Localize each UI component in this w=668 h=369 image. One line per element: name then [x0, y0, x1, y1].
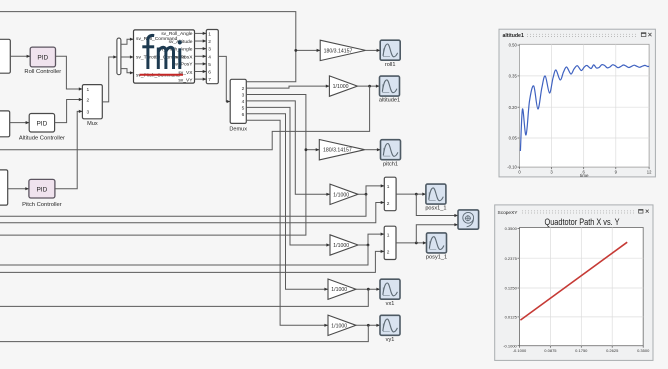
XY graph block — [458, 210, 479, 229]
svg-text:roll1: roll1 — [385, 62, 396, 68]
svg-text:altitude1: altitude1 — [379, 98, 400, 104]
svg-text:3: 3 — [242, 93, 245, 99]
wire: demux7 to vy gain — [246, 120, 328, 327]
scope window ScopeXY — [495, 205, 653, 361]
wire: pitch gain to pitch1 scope — [365, 148, 381, 151]
svg-text:1/1000: 1/1000 — [333, 192, 349, 198]
svg-text:ScopeXY: ScopeXY — [498, 210, 519, 216]
svg-text:Demux: Demux — [229, 126, 247, 132]
gain 1/1000 (altitude) — [329, 76, 357, 96]
mux block posy — [384, 226, 396, 259]
wire: vx feedback — [0, 289, 368, 306]
wire: bar to FMU sv_Pitch_Command — [121, 69, 134, 75]
Demux block — [229, 79, 247, 132]
svg-text:sv_VY: sv_VY — [178, 78, 193, 84]
svg-text:3: 3 — [87, 109, 90, 115]
gain 1/1000 (posy) — [330, 235, 358, 255]
svg-text:pitch1: pitch1 — [383, 161, 398, 167]
wire: bar to FMU sv_Throttle_Command — [121, 55, 134, 58]
gain 1/1000 (vy) — [328, 315, 356, 335]
svg-text:posy1_1: posy1_1 — [426, 255, 447, 261]
sum block (cut off, pitch row) — [0, 170, 8, 205]
junction posx feedback — [365, 193, 368, 196]
wire: posx feedback — [0, 194, 366, 216]
scope posy1_1 — [426, 233, 447, 261]
svg-text:sv_Roll_Angle: sv_Roll_Angle — [161, 31, 193, 37]
svg-text:12: 12 — [647, 169, 652, 174]
svg-text:-0.10: -0.10 — [507, 165, 517, 170]
svg-text:5: 5 — [242, 105, 245, 111]
wire: posx mux to posx1_1 scope — [396, 193, 426, 196]
scope window altitude1 — [499, 29, 655, 177]
ScopeXY plot area — [503, 226, 650, 353]
svg-text:4: 4 — [208, 54, 211, 60]
altitude response curve — [520, 65, 649, 151]
gain 180/3.14157 (roll) — [320, 40, 365, 60]
svg-text:1/1000: 1/1000 — [331, 287, 347, 293]
junction roll branch — [294, 49, 297, 52]
wire: Pitch PID to Mux in3 — [55, 110, 83, 189]
svg-text:Quadtotor Path X vs. Y: Quadtotor Path X vs. Y — [545, 217, 621, 228]
red strikethrough on sv_Pitch_Command — [140, 74, 184, 76]
svg-text:Mux: Mux — [87, 121, 98, 127]
svg-text:0.50: 0.50 — [509, 43, 518, 48]
junction vx feedback — [367, 288, 370, 291]
svg-text:0.1750: 0.1750 — [575, 348, 588, 353]
wire: FMU out 4 to collector — [195, 55, 207, 58]
svg-text:PID: PID — [36, 120, 47, 127]
sum block (cut off, roll row) — [0, 39, 10, 73]
scope altitude1 — [379, 76, 400, 104]
wire: FMU out 3 to collector — [195, 47, 207, 50]
svg-text:Altitude Controller: Altitude Controller — [19, 136, 65, 142]
svg-text:5: 5 — [208, 62, 211, 68]
scope pitch1 — [381, 140, 401, 168]
svg-text:0.05: 0.05 — [509, 136, 518, 141]
wire: demux1 roll-angle feedback loop — [0, 12, 296, 82]
svg-text:2: 2 — [242, 86, 245, 92]
svg-text:3: 3 — [208, 47, 211, 53]
gain 1/1000 (vx) — [328, 279, 356, 299]
junction altitude feedback — [368, 85, 371, 88]
wire: FMU out 1 to collector — [195, 32, 207, 35]
junction posy to XY — [415, 242, 418, 245]
wire: sum to Altitude PID — [10, 121, 30, 124]
wire: branch to roll gain — [296, 49, 320, 52]
wire: roll gain to roll1 scope — [366, 49, 381, 52]
XY path red line — [520, 242, 627, 320]
svg-text:posx1_1: posx1_1 — [425, 206, 446, 212]
altitude1 plot area — [507, 43, 652, 179]
junction vy feedback — [367, 324, 370, 327]
FMU input port bar — [117, 38, 121, 75]
wire: posy to XY graph in2 — [416, 223, 458, 243]
wire: demux2 to altitude gain — [246, 85, 329, 89]
wire: Roll PID to Mux in1 — [56, 56, 83, 90]
wire: posy mux to posy1_1 scope — [396, 241, 427, 244]
wire: demux5 to posy gain — [246, 107, 330, 246]
svg-text:1: 1 — [387, 232, 390, 238]
wire: Altitude PID to Mux in2 — [55, 98, 83, 123]
wire: sum to Roll PID — [10, 55, 30, 58]
svg-text:1/1000: 1/1000 — [333, 243, 349, 249]
fmi logo — [142, 35, 182, 69]
scope posx1_1 — [425, 184, 446, 212]
svg-text:180/3.14157: 180/3.14157 — [324, 48, 353, 54]
gain 1/1000 (posx) — [330, 184, 358, 204]
wire: FMU out 5 to collector — [195, 62, 207, 65]
svg-text:altitude1: altitude1 — [503, 33, 524, 39]
svg-text:sv_PosX: sv_PosX — [173, 54, 193, 60]
FMU output collector block — [206, 30, 218, 84]
wire: FMU out 2 to collector — [195, 39, 207, 42]
wire: sum to Pitch PID — [8, 187, 29, 190]
svg-text:time: time — [580, 173, 589, 178]
FMU block (quadrotor model) — [134, 30, 195, 84]
svg-text:0.3500: 0.3500 — [637, 348, 650, 353]
PID block Roll Controller — [24, 47, 61, 75]
wire: bar to FMU sv_Roll_Command — [121, 38, 134, 45]
svg-text:2: 2 — [387, 201, 390, 207]
junction pitch branch — [305, 148, 308, 151]
svg-text:2: 2 — [208, 39, 211, 45]
svg-text:0.20: 0.20 — [509, 105, 518, 110]
svg-text:2: 2 — [87, 98, 90, 104]
scope vy1 — [380, 315, 400, 343]
svg-text:vy1: vy1 — [386, 337, 395, 343]
svg-text:1/1000: 1/1000 — [333, 84, 349, 90]
wire: demux4 to posx gain — [246, 101, 330, 196]
svg-text:0.35: 0.35 — [509, 74, 518, 79]
svg-text:180/3.14157: 180/3.14157 — [323, 148, 352, 154]
wire: desired Y to mux in2 — [0, 250, 384, 273]
wire: altitude gain to altitude1 scope — [357, 85, 379, 88]
scope vx1 — [380, 279, 400, 307]
wire: demux3 pitch feedback — [0, 95, 306, 236]
sum block (cut off, altitude row) — [0, 111, 10, 137]
svg-text:7: 7 — [208, 77, 211, 83]
wire: demux6 to vx gain — [246, 114, 328, 291]
svg-text:0.2625: 0.2625 — [606, 348, 619, 353]
wire: posx to XY graph in1 — [416, 194, 458, 217]
svg-text:1: 1 — [208, 31, 211, 37]
svg-text:PID: PID — [36, 187, 47, 194]
svg-text:4: 4 — [242, 99, 245, 105]
wire: vy feedback — [0, 325, 368, 341]
wire: vx gain to vx1 scope — [356, 288, 380, 291]
junction posy feedback — [367, 244, 370, 247]
wire: collector to Demux — [218, 56, 230, 103]
wire: FMU out 7 to collector — [195, 78, 207, 81]
svg-text:Pitch Controller: Pitch Controller — [22, 202, 62, 208]
scope roll1 — [380, 40, 400, 68]
svg-text:1: 1 — [387, 184, 390, 190]
wire: desired X to mux in2 — [0, 201, 384, 223]
wire: posy gain to mux in1 — [358, 233, 384, 246]
wire: posy feedback — [0, 245, 368, 265]
gain 180/3.14157 (pitch) — [319, 140, 364, 160]
PID block Altitude Controller — [19, 114, 65, 142]
svg-text:vx1: vx1 — [386, 301, 395, 307]
svg-text:0.0875: 0.0875 — [544, 348, 557, 353]
wire: Mux out to FMU input bar — [102, 55, 117, 102]
svg-text:Roll Controller: Roll Controller — [24, 69, 61, 75]
svg-text:-0.1000: -0.1000 — [513, 348, 527, 353]
junction posx to XY — [415, 193, 418, 196]
mux block posx — [384, 177, 396, 211]
svg-text:sv_PosY: sv_PosY — [173, 62, 193, 68]
svg-text:0.1250: 0.1250 — [505, 286, 518, 291]
svg-text:1: 1 — [87, 87, 90, 93]
svg-text:PID: PID — [37, 55, 48, 62]
PID block Pitch Controller — [22, 179, 62, 207]
ScopeXY plot title — [545, 217, 621, 228]
svg-text:6: 6 — [208, 70, 211, 76]
svg-text:0.0125: 0.0125 — [505, 315, 518, 320]
wire: branch to pitch gain — [306, 148, 319, 151]
Mux block — [82, 85, 102, 127]
wire: vy gain to vy1 scope — [356, 324, 380, 327]
svg-text:0.3500: 0.3500 — [505, 226, 518, 231]
wire: altitude feedback — [0, 86, 370, 150]
wire: posx gain to mux in1 — [358, 184, 384, 194]
svg-text:2: 2 — [387, 250, 390, 256]
svg-text:1/1000: 1/1000 — [331, 323, 347, 329]
wire: FMU out 6 to collector — [195, 70, 207, 73]
svg-text:6: 6 — [242, 112, 245, 118]
svg-text:0.2375: 0.2375 — [505, 256, 518, 261]
